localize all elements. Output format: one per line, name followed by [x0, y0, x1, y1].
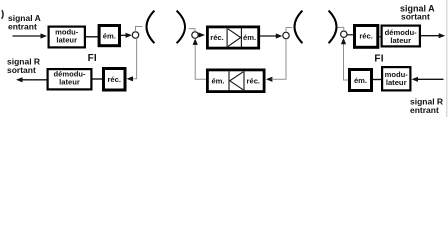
svg-text:lateur: lateur — [386, 78, 407, 87]
svg-text:lateur: lateur — [56, 35, 77, 44]
svg-text:lateur: lateur — [59, 78, 80, 87]
svg-text:FI: FI — [88, 53, 97, 64]
svg-text:réc.: réc. — [210, 33, 224, 42]
svg-text:FI: FI — [374, 53, 383, 64]
svg-text:lateur: lateur — [390, 36, 411, 45]
svg-text:ém.: ém. — [243, 33, 256, 42]
svg-text:réc.: réc. — [247, 77, 261, 86]
svg-text:ém.: ém. — [354, 76, 367, 85]
svg-text:ém.: ém. — [103, 31, 116, 40]
svg-text:réc.: réc. — [359, 31, 373, 40]
svg-text:entrant: entrant — [8, 22, 37, 32]
svg-text:ém.: ém. — [211, 77, 224, 86]
svg-text:sortant: sortant — [7, 65, 36, 75]
svg-text:sortant: sortant — [401, 11, 430, 21]
svg-text:entrant: entrant — [410, 105, 439, 115]
svg-text:réc.: réc. — [107, 75, 121, 84]
